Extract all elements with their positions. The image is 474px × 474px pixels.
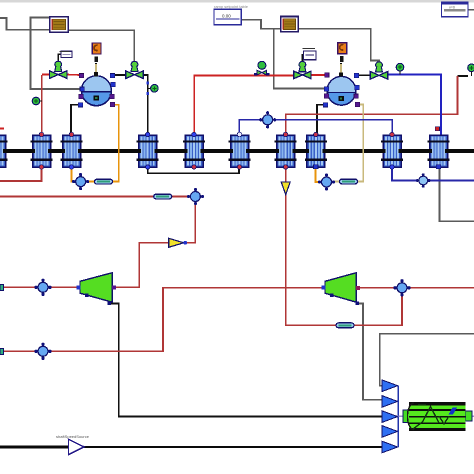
- svg-text:ramp setpoint table: ramp setpoint table: [214, 4, 249, 9]
- svg-text:0.00: 0.00: [222, 14, 231, 19]
- svg-text:shaftSpeedSource: shaftSpeedSource: [56, 434, 90, 439]
- svg-text:v=0: v=0: [449, 5, 455, 9]
